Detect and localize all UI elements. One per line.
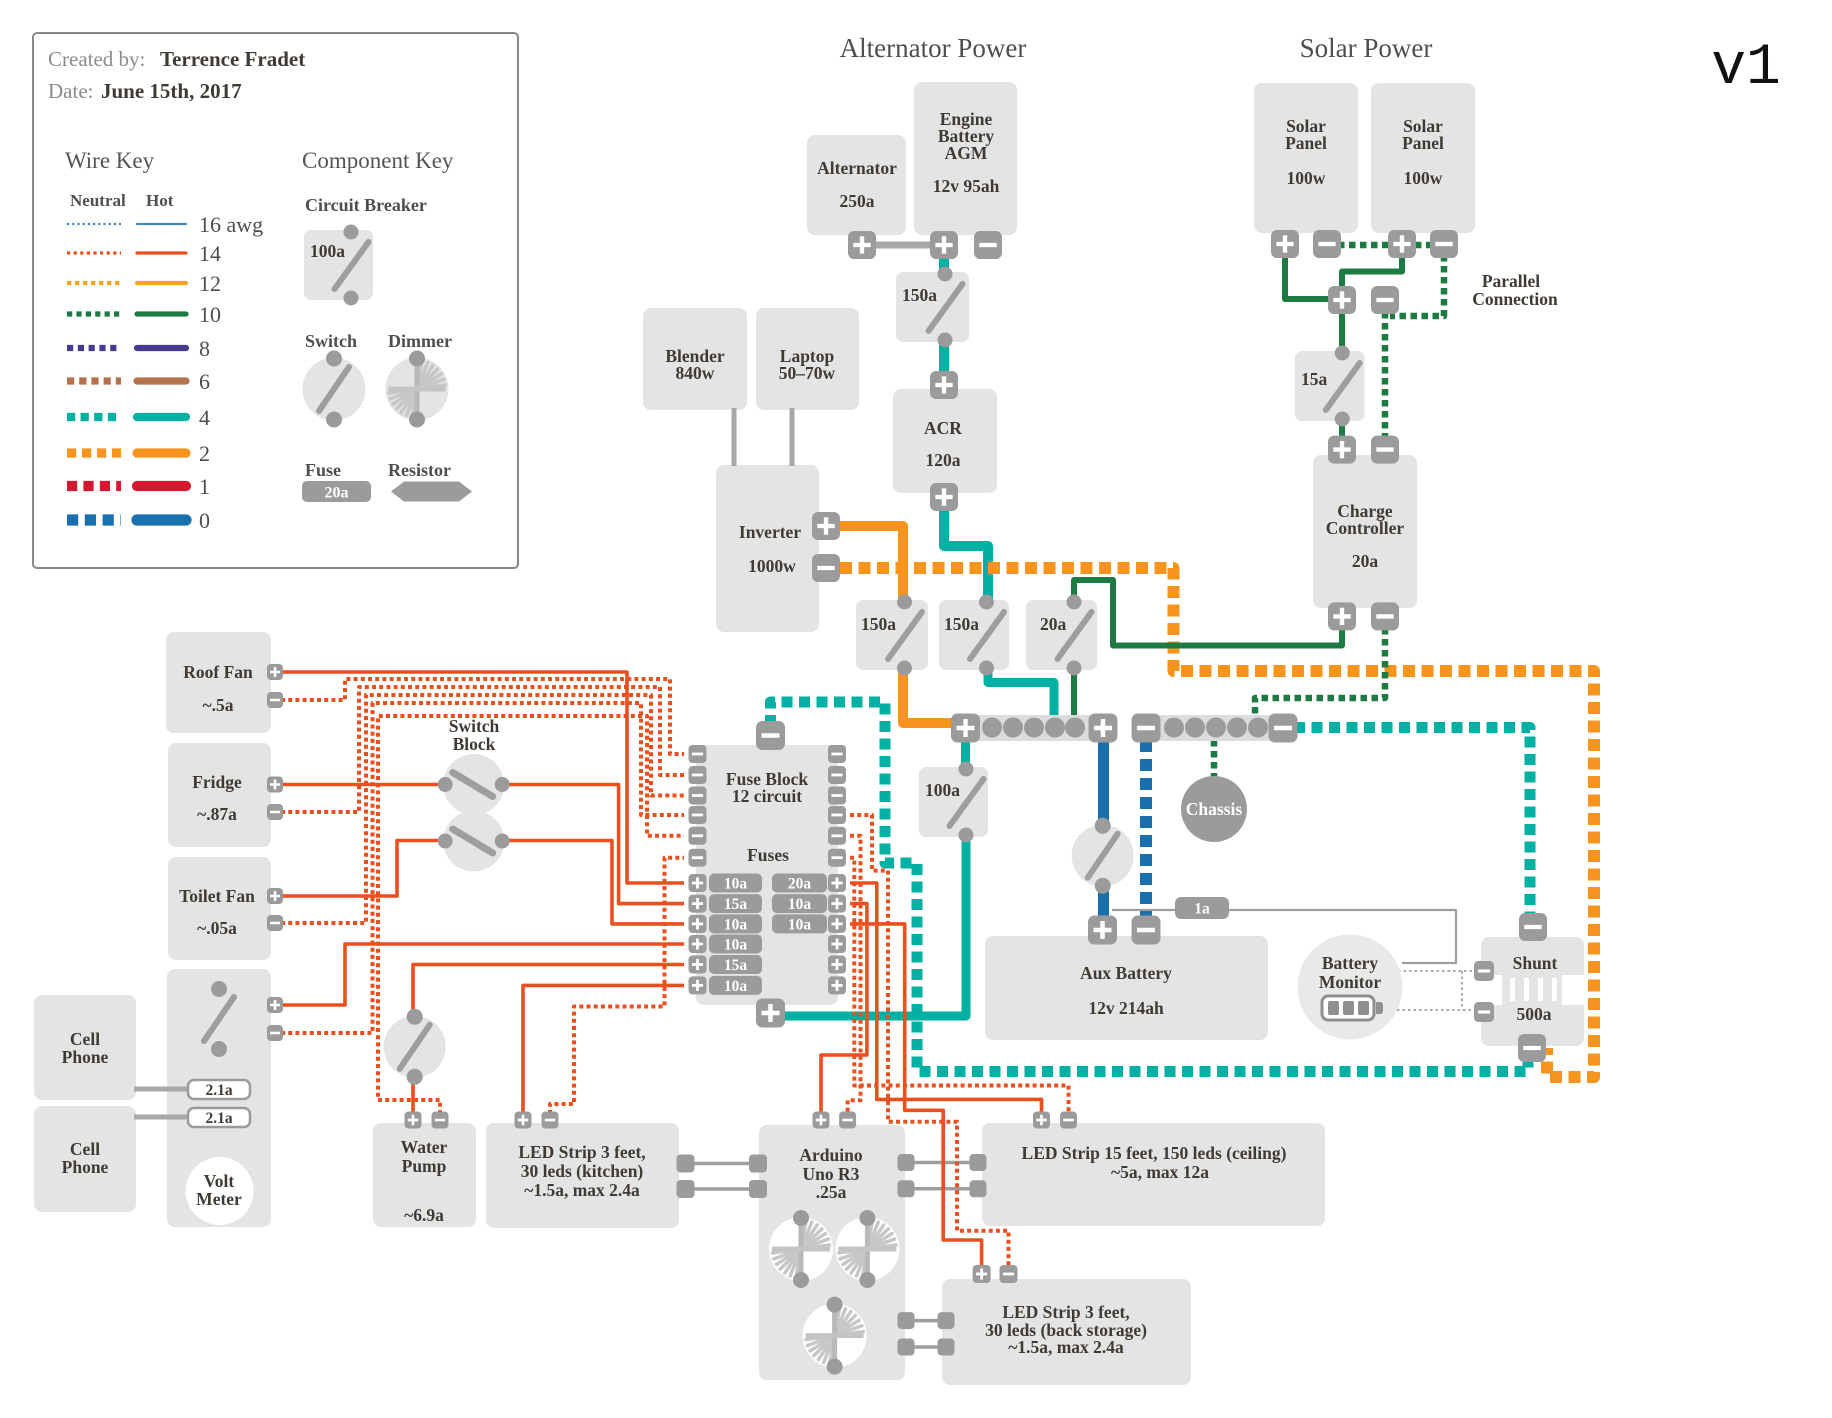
svg-text:Monitor: Monitor [1319, 972, 1381, 992]
svg-text:Alternator: Alternator [817, 158, 897, 178]
wire 20a breaker to positive busbar green [1071, 667, 1077, 716]
svg-text:Fridge: Fridge [192, 772, 242, 792]
svg-text:12 circuit: 12 circuit [732, 786, 802, 806]
wire LED kitchen hot [523, 985, 684, 1114]
svg-text:ACR: ACR [924, 418, 962, 438]
component key resistor symbol [391, 482, 472, 502]
svg-text:100a: 100a [310, 241, 345, 261]
wire toilet fan hot switch to fuse [498, 841, 684, 924]
water pump positive terminal [405, 1112, 422, 1129]
svg-text:100w: 100w [1287, 168, 1326, 188]
wire key row 8 hot swatch [137, 345, 186, 351]
fuse block top negative terminal [756, 721, 785, 750]
wire charge controller negative to busbar green dashed [1255, 628, 1385, 716]
fridge box [168, 743, 271, 847]
ACR input positive terminal [930, 371, 958, 399]
parallel connection label [1472, 271, 1558, 309]
solar panel 1 negative terminal [1313, 230, 1341, 258]
wire key row 0 hot swatch [137, 514, 186, 525]
charge controller output positive terminal [1328, 602, 1356, 630]
wire key row 12 hot swatch [137, 281, 186, 285]
svg-text:4: 4 [199, 405, 210, 430]
arduino negative terminal [839, 1112, 856, 1129]
fuse 2.1a cell phone 2 [188, 1108, 250, 1127]
inverter box [716, 465, 819, 632]
positive busbar right terminal [1089, 714, 1118, 743]
fuse block left negative terminal 4 [689, 806, 707, 824]
svg-text:Meter: Meter [196, 1189, 242, 1209]
svg-text:Roof Fan: Roof Fan [183, 662, 253, 682]
svg-text:Battery: Battery [1322, 953, 1379, 973]
fuse block bottom positive terminal [756, 999, 785, 1028]
battery monitor [1298, 935, 1403, 1040]
fuse left 10a row 4 [709, 935, 762, 954]
wire cell phone 1 to fuse 2.1a [134, 1087, 190, 1092]
svg-text:2.1a: 2.1a [205, 1110, 232, 1127]
wire cell phone 2 to fuse 2.1a [134, 1115, 190, 1120]
toilet fan box [168, 857, 271, 960]
svg-text:Terrence Fradet: Terrence Fradet [160, 47, 305, 71]
svg-text:Block: Block [453, 734, 496, 754]
svg-text:AGM: AGM [945, 143, 988, 163]
cell phone box 2 [34, 1106, 136, 1212]
wire roof fan hot [281, 672, 684, 883]
shunt bottom negative terminal [1518, 1034, 1546, 1062]
data wire kitchen-arduino 2 [692, 1187, 752, 1191]
circuit breaker 150a inverter [856, 595, 928, 676]
wire positive busbar to 100a breaker teal [961, 740, 970, 770]
svg-text:Aux Battery: Aux Battery [1080, 963, 1172, 983]
svg-text:Connection: Connection [1472, 289, 1558, 309]
blender box [643, 308, 747, 410]
roof fan box [166, 632, 271, 733]
fuse block left positive terminal 1 [689, 874, 707, 892]
svg-text:150a: 150a [902, 285, 937, 305]
wire fridge hot switch to fuse [498, 785, 684, 904]
switch and volt meter box [167, 969, 271, 1227]
fridge negative terminal [267, 804, 283, 820]
svg-text:Switch: Switch [449, 716, 500, 736]
laptop box [756, 308, 859, 410]
switch block label [449, 716, 500, 754]
wire accessory switch hot [281, 944, 684, 1005]
accessory switch symbol [188, 981, 250, 1057]
svg-text:150a: 150a [944, 614, 979, 634]
svg-text:Neutral: Neutral [70, 191, 126, 210]
circuit breaker 100a fuse block feed [919, 762, 988, 843]
fuse block left negative terminal 1 [689, 745, 707, 763]
arduino dimmer 1 [769, 1210, 833, 1288]
component key circuit breaker symbol [304, 225, 373, 306]
svg-text:Fuses: Fuses [747, 845, 789, 865]
svg-text:LED Strip 3 feet,: LED Strip 3 feet, [1002, 1302, 1129, 1322]
wire roof fan neutral [281, 679, 684, 754]
svg-text:Phone: Phone [62, 1157, 109, 1177]
svg-text:20a: 20a [1352, 551, 1379, 571]
wire positive busbar to aux battery blue [1098, 740, 1109, 918]
svg-text:Solar Power: Solar Power [1300, 33, 1433, 63]
svg-text:Cell: Cell [70, 1139, 100, 1159]
LED strip ceiling box [982, 1123, 1325, 1226]
component key switch symbol [303, 351, 366, 428]
svg-text:2.1a: 2.1a [205, 1082, 232, 1099]
wire key row 6 neutral swatch [67, 377, 121, 384]
circuit breaker 15a solar panel [1295, 346, 1365, 427]
wire key row 1 neutral swatch [67, 481, 121, 491]
svg-text:15a: 15a [724, 957, 748, 974]
svg-text:10a: 10a [724, 916, 748, 933]
toilet fan negative terminal [267, 915, 283, 931]
wire battery monitor sense dotted 1 [1398, 970, 1476, 972]
svg-text:~.05a: ~.05a [197, 918, 237, 938]
svg-text:LED Strip 3 feet,: LED Strip 3 feet, [518, 1142, 645, 1162]
wire parallel positive to 15a breaker green [1339, 312, 1345, 353]
parallel junction positive terminal [1328, 286, 1356, 314]
svg-text:10a: 10a [724, 876, 748, 893]
fuse block left positive terminal 4 [689, 935, 707, 953]
LED kitchen positive terminal [515, 1112, 532, 1129]
fuse left 10a row 6 [709, 976, 762, 995]
charge controller box [1313, 455, 1417, 608]
wire key row 2 neutral swatch [67, 448, 121, 457]
wire arduino hot [821, 904, 867, 1114]
svg-text:Switch: Switch [305, 331, 357, 351]
aux battery box [985, 936, 1268, 1040]
switch block switch 1 [438, 754, 510, 815]
fuse block right positive terminal 2 [828, 895, 846, 913]
svg-text:Panel: Panel [1285, 133, 1327, 153]
wire battery monitor sense dotted vertical [1461, 971, 1463, 1010]
legend author line [48, 47, 305, 71]
wire key row 14 hot swatch [137, 251, 186, 254]
wire accessory switch neutral [281, 703, 684, 1033]
accessory switch positive terminal [267, 997, 283, 1013]
cell phone box 1 [34, 995, 136, 1100]
LED back storage positive terminal [973, 1265, 991, 1283]
svg-text:Controller: Controller [1326, 518, 1405, 538]
LED back data connector squares [938, 1312, 955, 1355]
arduino right data connector squares lower [898, 1312, 915, 1355]
wire LED ceiling neutral [850, 858, 1069, 1114]
battery monitor battery icon [1322, 996, 1383, 1020]
wire solar panel 1 positive green [1285, 255, 1330, 299]
legend date line [48, 79, 242, 103]
charge controller input positive terminal [1328, 436, 1356, 464]
wire fuse block negative to shunt teal dashed [771, 702, 1529, 1072]
fuse left 10a row 1 [709, 874, 762, 893]
svg-text:30 leds (kitchen): 30 leds (kitchen) [521, 1161, 644, 1181]
engine battery AGM box [914, 82, 1017, 235]
svg-text:1a: 1a [1194, 901, 1210, 918]
svg-text:Volt: Volt [204, 1171, 235, 1191]
fuse block right negative terminal 5 [828, 827, 846, 845]
wire 15a breaker to charge controller green [1339, 419, 1345, 438]
svg-text:Fuse: Fuse [305, 460, 341, 480]
wire negative busbar to aux battery blue dashed [1140, 740, 1152, 918]
svg-text:1: 1 [199, 474, 210, 499]
arduino uno box [759, 1125, 905, 1380]
kitchen data connector squares [677, 1155, 695, 1199]
svg-text:Circuit Breaker: Circuit Breaker [305, 195, 427, 215]
wire arduino neutral [848, 836, 861, 1114]
LED strip kitchen box [486, 1123, 679, 1228]
negative busbar [1136, 715, 1293, 741]
component key dimmer symbol [386, 351, 449, 428]
wire alternator to engine battery [870, 242, 936, 249]
roof fan negative terminal [267, 692, 283, 708]
LED kitchen negative terminal [542, 1112, 559, 1129]
fuse block left positive terminal 6 [689, 976, 707, 994]
wire key row 8 neutral swatch [67, 345, 121, 351]
svg-text:12v 214ah: 12v 214ah [1088, 998, 1164, 1018]
LED back storage negative terminal [1000, 1265, 1018, 1283]
solar panel 2 box [1371, 83, 1475, 233]
wire key row 4 hot swatch [137, 413, 186, 421]
svg-text:14: 14 [199, 241, 221, 266]
aux battery negative terminal [1132, 916, 1161, 945]
svg-text:Pump: Pump [402, 1156, 447, 1176]
wire key row 16 awg hot swatch [137, 223, 186, 225]
roof fan positive terminal [267, 664, 283, 680]
svg-text:v1: v1 [1711, 36, 1781, 101]
wire laptop to inverter [790, 408, 795, 466]
engine battery negative terminal [974, 231, 1002, 259]
svg-text:20a: 20a [788, 876, 812, 893]
fuse left 15a row 5 [709, 955, 762, 974]
wire solar panel 2 negative green dashed [1390, 255, 1444, 316]
svg-text:~6.9a: ~6.9a [404, 1205, 444, 1225]
aux battery positive terminal [1088, 916, 1117, 945]
chassis ground [1181, 776, 1247, 842]
svg-text:50–70w: 50–70w [779, 363, 836, 383]
wire LED kitchen neutral [550, 858, 684, 1114]
svg-text:1000w: 1000w [748, 556, 796, 576]
svg-text:~.87a: ~.87a [197, 804, 237, 824]
solar panel 1 positive terminal [1271, 230, 1299, 258]
wire inverter negative to shunt orange dashed [840, 568, 1594, 1077]
circuit breaker 20a solar [1026, 595, 1097, 676]
water pump switch symbol [384, 1009, 446, 1085]
wire charge controller positive to 20a breaker green [1074, 580, 1342, 646]
data wire arduino-backled 2 [912, 1345, 940, 1349]
fuse block right negative terminal 2 [828, 766, 846, 784]
svg-text:500a: 500a [1517, 1004, 1552, 1024]
svg-text:Cell: Cell [70, 1029, 100, 1049]
wire water pump switch hot to fuse [413, 965, 684, 1015]
fuse block box [696, 745, 838, 1005]
arduino dimmer 2 [835, 1210, 899, 1288]
fuse block left negative terminal 2 [689, 766, 707, 784]
water pump box [373, 1123, 476, 1227]
fuse block right negative terminal 1 [828, 745, 846, 763]
wire 100a breaker to fuse block positive teal [779, 835, 966, 1016]
fuse block left positive terminal 3 [689, 915, 707, 933]
svg-text:.25a: .25a [816, 1182, 847, 1202]
svg-text:Uno R3: Uno R3 [803, 1164, 860, 1184]
wire LED back storage neutral [850, 815, 1009, 1267]
fuse block right positive terminal 5 [828, 956, 846, 974]
alternator positive terminal [848, 231, 876, 259]
svg-text:Hot: Hot [146, 191, 174, 210]
svg-text:Chassis: Chassis [1186, 799, 1243, 819]
switch block switch 2 [438, 811, 510, 872]
wire key row 6 hot swatch [137, 377, 186, 384]
svg-text:12v 95ah: 12v 95ah [933, 176, 1000, 196]
svg-text:250a: 250a [840, 191, 875, 211]
wire key column headers [70, 191, 174, 210]
fuse block right positive terminal 6 [828, 976, 846, 994]
engine battery positive terminal [930, 231, 958, 259]
wire aux battery positive to battery monitor via 1a fuse [1112, 910, 1456, 963]
data wire arduino-ceiling 1 [912, 1161, 972, 1165]
wire battery monitor sense dotted 2 [1386, 1009, 1476, 1011]
wire ACR to 150a breaker 2 teal [944, 500, 988, 603]
fuse block right positive terminal 1 [828, 874, 846, 892]
fuse block left positive terminal 2 [689, 895, 707, 913]
svg-text:6: 6 [199, 369, 210, 394]
negative busbar left terminal [1132, 714, 1161, 743]
fuse block right positive terminal 4 [828, 935, 846, 953]
solar panel 2 positive terminal [1388, 230, 1416, 258]
svg-text:LED Strip 15 feet, 150 leds (c: LED Strip 15 feet, 150 leds (ceiling) [1022, 1143, 1287, 1163]
svg-text:Arduino: Arduino [799, 1145, 862, 1165]
svg-text:20a: 20a [325, 485, 349, 502]
arduino positive terminal [813, 1112, 830, 1129]
wire LED back storage hot [850, 924, 982, 1267]
LED ceiling positive terminal [1033, 1112, 1050, 1129]
svg-text:Resistor: Resistor [388, 460, 451, 480]
svg-text:12: 12 [199, 271, 221, 296]
fuse left 10a row 3 [709, 914, 762, 933]
svg-text:Component Key: Component Key [302, 148, 454, 173]
inverter negative terminal [812, 554, 840, 582]
svg-text:15a: 15a [724, 896, 748, 913]
fuse right 10a row 2 [772, 894, 827, 913]
arduino left data connector squares [749, 1155, 767, 1199]
arduino dimmer 3 [803, 1297, 867, 1375]
positive busbar left terminal [951, 714, 980, 743]
svg-text:2: 2 [199, 441, 210, 466]
LED strip back storage box [942, 1279, 1191, 1385]
wire 150a breaker to positive busbar orange [903, 667, 953, 723]
fuse right 20a row 1 [772, 874, 827, 893]
alternator box [807, 135, 906, 235]
svg-text:~5a, max 12a: ~5a, max 12a [1111, 1162, 1209, 1182]
wire negative busbar to chassis green dashed [1211, 740, 1218, 779]
wire solar panel 1 negative green dashed [1338, 242, 1448, 249]
svg-text:Created by:: Created by: [48, 47, 145, 71]
svg-text:100w: 100w [1404, 168, 1443, 188]
wire key row 12 neutral swatch [67, 281, 121, 285]
svg-text:Toilet Fan: Toilet Fan [179, 886, 255, 906]
volt meter [186, 1157, 254, 1225]
svg-text:Panel: Panel [1402, 133, 1444, 153]
wire key row 2 hot swatch [137, 448, 186, 457]
svg-text:Parallel: Parallel [1482, 271, 1540, 291]
svg-text:0: 0 [199, 508, 210, 533]
circuit breaker 150a engine battery [896, 267, 969, 348]
fuse block left negative terminal 6 [689, 849, 707, 867]
wire battery positive to 150a breaker teal [939, 250, 949, 275]
wire water pump switch to pump [411, 1078, 415, 1114]
wire key row 10 neutral swatch [67, 311, 121, 316]
svg-text:Alternator Power: Alternator Power [840, 33, 1027, 63]
inverter positive terminal [812, 512, 840, 540]
svg-text:10a: 10a [724, 978, 748, 995]
fuse block left negative terminal 5 [689, 827, 707, 845]
svg-text:150a: 150a [861, 614, 896, 634]
svg-text:16 awg: 16 awg [199, 212, 263, 237]
fuse block right positive terminal 3 [828, 915, 846, 933]
fuse 1a aux battery monitor [1175, 897, 1229, 919]
svg-text:Inverter: Inverter [739, 522, 801, 542]
wire solar panel 2 positive green [1342, 255, 1402, 288]
wire inverter positive to 150a breaker orange [838, 526, 903, 603]
toilet fan positive terminal [267, 888, 283, 904]
svg-text:10a: 10a [788, 896, 812, 913]
svg-text:Dimmer: Dimmer [388, 331, 452, 351]
shunt box [1481, 937, 1584, 1046]
fuse block right negative terminal 4 [828, 806, 846, 824]
data wire arduino-ceiling 2 [912, 1187, 972, 1191]
fuse block right negative terminal 6 [828, 849, 846, 867]
aux battery disconnect switch [1072, 818, 1134, 894]
svg-text:15a: 15a [1301, 369, 1328, 389]
positive busbar [955, 715, 1113, 741]
svg-text:10a: 10a [724, 937, 748, 954]
wire toilet fan neutral [281, 695, 684, 923]
fuse 2.1a cell phone 1 [188, 1080, 250, 1099]
fuse block left negative terminal 3 [689, 787, 707, 805]
svg-text:10: 10 [199, 302, 221, 327]
svg-text:840w: 840w [676, 363, 715, 383]
wire water pump neutral [378, 716, 684, 1114]
data wire kitchen-arduino 1 [692, 1162, 752, 1166]
wire key row 14 neutral swatch [67, 251, 121, 254]
fuse block left positive terminal 5 [689, 956, 707, 974]
svg-text:~1.5a, max 2.4a: ~1.5a, max 2.4a [524, 1180, 640, 1200]
svg-text:20a: 20a [1040, 614, 1067, 634]
charge controller output negative terminal [1371, 602, 1399, 630]
wire fridge hot to switch [281, 783, 444, 787]
svg-text:100a: 100a [925, 780, 960, 800]
charge controller input negative terminal [1371, 436, 1399, 464]
svg-text:June 15th, 2017: June 15th, 2017 [101, 79, 242, 103]
svg-text:Wire Key: Wire Key [65, 148, 155, 173]
wire key row 10 hot swatch [137, 311, 186, 316]
wire LED ceiling hot [850, 883, 1042, 1114]
legend frame [33, 33, 518, 568]
wire 150a breaker to ACR teal [939, 339, 949, 378]
component key fuse symbol 20a [302, 481, 371, 502]
svg-text:10a: 10a [788, 916, 812, 933]
shunt top negative terminal [1519, 913, 1547, 941]
fuse block right negative terminal 3 [828, 787, 846, 805]
arduino right data connector squares upper [898, 1154, 915, 1197]
wire fridge neutral [281, 687, 684, 812]
solar panel 1 box [1254, 83, 1358, 233]
wire parallel negative to charge controller green dashed [1382, 312, 1389, 438]
negative busbar right terminal [1269, 714, 1298, 743]
fuse right 10a row 3 [772, 914, 827, 933]
wire toilet fan hot to switch [281, 841, 444, 897]
wire key row 4 neutral swatch [67, 413, 121, 421]
svg-text:Date:: Date: [48, 79, 93, 103]
ACR output positive terminal [930, 483, 958, 511]
ACR box [893, 389, 997, 493]
svg-text:~.5a: ~.5a [203, 695, 234, 715]
svg-text:8: 8 [199, 336, 210, 361]
